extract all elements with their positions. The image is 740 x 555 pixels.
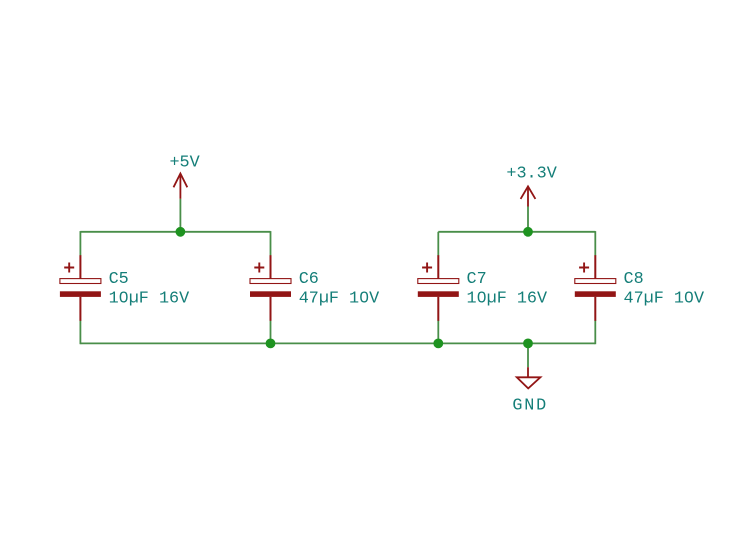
svg-text:C8: C8 [624,270,644,289]
wire: +3.3V top rail from C7 to C8 [438,231,595,233]
wire: C5 bottom lead [79,320,81,344]
wire: GND symbol stem [527,343,529,367]
svg-text:+3.3V: +3.3V [506,164,556,183]
capacitor C8 (polarized) [575,255,616,321]
junction: +5V rail tap [176,227,186,237]
svg-text:C7: C7 [467,270,487,289]
wire: C7 top lead [437,232,439,256]
wire: C8 bottom lead [594,320,596,344]
wire: C5 top lead [79,231,81,256]
wire: +3.3V symbol stem [527,207,529,232]
power symbol +3.3V (arrow) [521,186,536,206]
junction: GND rail tap [523,339,533,349]
wire: C7 bottom lead [437,320,439,343]
capacitor C5 (polarized) [60,255,101,321]
svg-text:C5: C5 [109,270,129,289]
junction: C6 bottom on GND rail [266,339,276,349]
power symbol +5V (arrow) [174,174,188,199]
wire: C8 top lead [594,231,596,256]
wire: GND bottom rail from C5 to C8 [80,342,595,344]
wire: +5V symbol stem [179,199,181,232]
wire: +5V top rail from C5 to C6 [80,231,270,233]
svg-text:C6: C6 [299,270,319,289]
capacitor C7 (polarized) [418,255,459,321]
svg-text:47µF 10V: 47µF 10V [624,290,705,309]
wire: C6 top lead [270,231,272,256]
junction: C7 bottom on GND rail [433,339,443,349]
capacitor C6 (polarized) [250,255,291,321]
svg-text:+5V: +5V [169,153,199,172]
svg-text:10µF 16V: 10µF 16V [109,290,190,309]
svg-text:10µF 16V: 10µF 16V [467,290,548,309]
wire: C6 bottom lead [270,320,272,343]
svg-text:47µF 10V: 47µF 10V [299,290,380,309]
power symbol GND (triangle) [517,367,541,388]
junction: +3.3V rail tap [523,227,533,237]
svg-text:GND: GND [512,397,548,416]
